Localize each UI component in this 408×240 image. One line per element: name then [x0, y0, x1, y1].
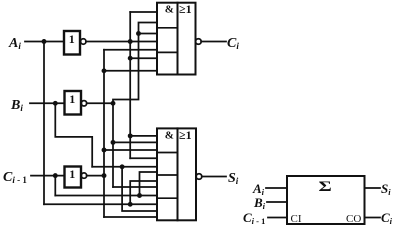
wire block S output: [365, 187, 381, 189]
inverter U3 output bubble: [81, 173, 86, 178]
wire NOT-A to S-gate pin 4: [130, 157, 157, 159]
junction A riser: [128, 202, 133, 207]
junction NOT-C tap top gate pin 7: [102, 68, 107, 73]
svg-text:Ci: Ci: [227, 36, 239, 51]
wire NOT-B output: [87, 102, 113, 104]
wire B drop to S-gate pin 11: [122, 167, 157, 211]
wire NOT-A to S-gate pin 1: [130, 135, 157, 137]
wire NOT-A to top gate pin 6: [130, 57, 157, 59]
svg-text:&: &: [165, 4, 174, 16]
svg-text:CO: CO: [346, 213, 361, 225]
AOI U5 output bubble: [196, 174, 202, 180]
junction B: [53, 101, 58, 106]
svg-text:Si: Si: [381, 181, 391, 197]
wire block B input: [267, 201, 287, 203]
svg-text:≥1: ≥1: [179, 2, 192, 16]
wire C drop to C rail: [54, 176, 56, 196]
junction NOT-A: [128, 39, 133, 44]
svg-text:Ci - 1: Ci - 1: [243, 210, 265, 226]
inverter U3 (C): [65, 167, 82, 188]
svg-text:Ci: Ci: [381, 210, 393, 226]
wire NOT-B to S-gate pin 8: [113, 186, 157, 188]
junction C riser tap: [137, 193, 142, 198]
junction NOT-C tap S-gate pin 3: [102, 148, 107, 153]
wire block CI input: [268, 217, 287, 219]
wire C riser to S-gate pin 6: [140, 172, 158, 196]
AOI U5 AND cell dividers: [157, 153, 178, 199]
wire NOT-C to S-gate pin 12: [104, 216, 157, 218]
wire NOT-C to S-gate pin 3: [104, 149, 157, 151]
svg-text:Ci - 1: Ci - 1: [3, 170, 27, 185]
junction NOT-C: [102, 173, 107, 178]
AOI U4 AND/OR divider: [177, 3, 179, 75]
wire A riser to S-gate pin 7: [130, 181, 157, 204]
wire S_i output: [202, 176, 226, 178]
wire C_i-1 input: [31, 175, 65, 177]
wire NOT-A vertical bus: [129, 12, 131, 158]
svg-text:CI: CI: [291, 213, 302, 225]
wire B to S-gate pin 5: [92, 166, 157, 168]
junction NOT-A tap S-gate pin 1: [128, 133, 133, 138]
junction NOT-B tap S-gate pin 2: [111, 140, 116, 145]
wire NOT-B riser to top gate pin 2: [113, 23, 157, 104]
svg-text:Ai: Ai: [8, 36, 21, 51]
svg-text:Σ: Σ: [319, 178, 332, 195]
AOI gate U4 (carry) body: [157, 3, 196, 75]
inverter U1 (A): [64, 31, 80, 55]
svg-text:Si: Si: [228, 171, 239, 186]
wire NOT-B vertical bus down: [112, 103, 114, 187]
AOI U4 output bubble: [196, 39, 202, 45]
AOI U5 AND/OR divider: [177, 128, 179, 220]
wire NOT-C vertical bus: [103, 50, 105, 217]
svg-text:1: 1: [69, 32, 75, 46]
inverter U2 output bubble: [81, 101, 86, 106]
wire NOT-A to top gate pin 4: [86, 41, 157, 43]
svg-text:≥1: ≥1: [179, 128, 192, 142]
wire NOT-A to top gate pin 1: [130, 11, 157, 13]
junction C: [53, 173, 58, 178]
wire NOT-B to top gate pin 3: [139, 33, 158, 35]
wire NOT-C output: [87, 175, 104, 177]
wire NOT-C to top gate pin 5: [104, 49, 157, 51]
junction NOT-B: [111, 101, 116, 106]
wire A vertical bus: [43, 42, 45, 205]
svg-text:&: &: [165, 130, 174, 142]
inverter U2 (B): [65, 91, 82, 115]
svg-text:Bi: Bi: [253, 195, 266, 211]
wire NOT-C to top gate pin 7: [104, 70, 157, 72]
junction A: [42, 39, 47, 44]
inverter U1 output bubble: [81, 39, 86, 44]
wire B_i input: [30, 102, 65, 104]
wire NOT-B to S-gate pin 2: [113, 141, 157, 143]
junction B riser tap: [120, 164, 125, 169]
AOI gate U5 (sum) body: [157, 128, 196, 220]
wire A bottom rail to S-gate pin 10: [44, 203, 157, 205]
wire C rail to S-gate pin 9: [55, 195, 157, 197]
AOI U4 AND cell dividers: [157, 28, 178, 53]
full adder block U6 body: [287, 176, 365, 224]
wire C_i output: [201, 41, 226, 43]
svg-text:1: 1: [69, 92, 75, 106]
junction NOT-B tap top gate pin 3: [136, 31, 141, 36]
junction NOT-A tap top gate pin 6: [128, 56, 133, 61]
wire block A input: [266, 187, 287, 189]
wire block CO output: [365, 217, 381, 219]
svg-text:1: 1: [69, 167, 75, 181]
wire A_i input: [25, 41, 64, 43]
svg-text:Bi: Bi: [10, 98, 23, 113]
wire B jog down-right-down: [55, 103, 92, 167]
